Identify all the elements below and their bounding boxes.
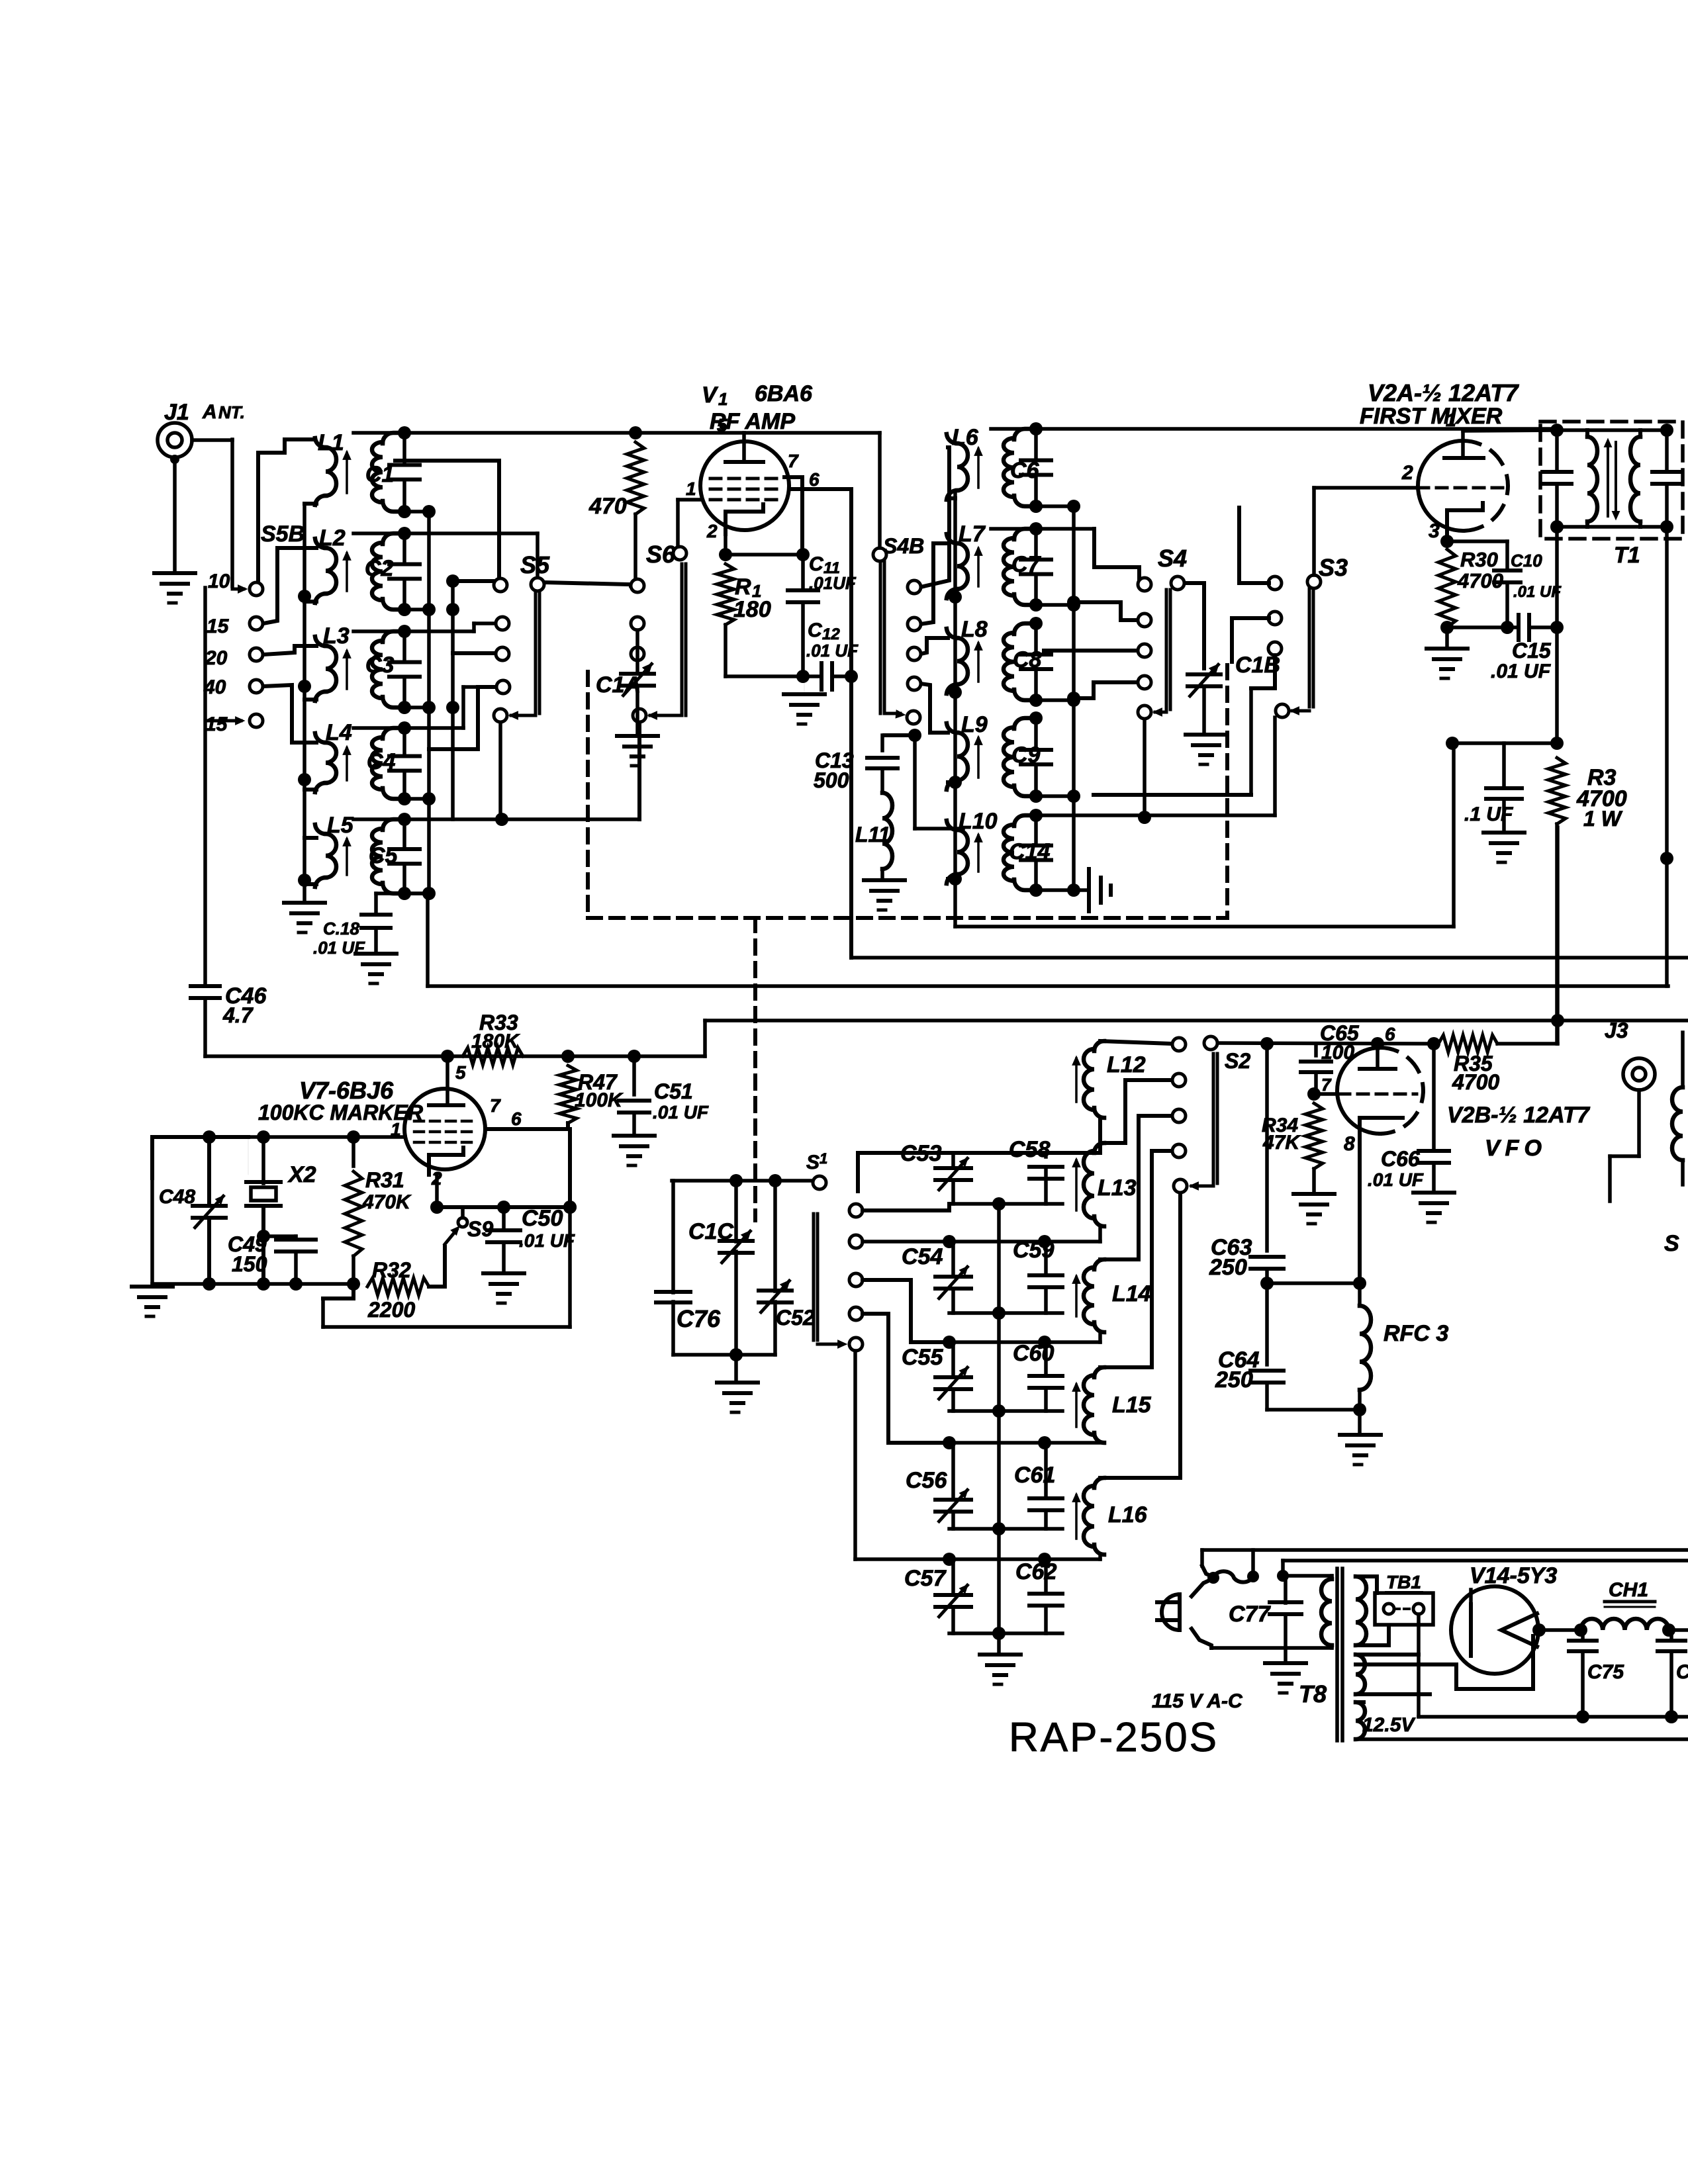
svg-text:C52: C52 (776, 1306, 815, 1330)
svg-text:V14-5Y3: V14-5Y3 (1470, 1563, 1557, 1588)
svg-text:L16: L16 (1108, 1502, 1148, 1527)
svg-text:VFO: VFO (1485, 1136, 1547, 1161)
svg-text:L4: L4 (326, 720, 352, 745)
svg-text:6: 6 (809, 469, 820, 490)
svg-text:S4B: S4B (883, 534, 924, 558)
svg-text:C: C (1676, 1661, 1688, 1683)
svg-text:500: 500 (814, 768, 849, 792)
svg-text:15: 15 (207, 615, 230, 637)
svg-text:C58: C58 (1009, 1137, 1050, 1162)
svg-text:L11: L11 (855, 823, 890, 846)
svg-text:A: A (202, 401, 217, 423)
svg-text:15: 15 (205, 713, 228, 735)
svg-text:L9: L9 (961, 712, 988, 737)
svg-text:7: 7 (490, 1095, 501, 1116)
svg-text:C15: C15 (1512, 639, 1552, 662)
svg-text:L5: L5 (327, 813, 354, 838)
svg-text:C77: C77 (1229, 1602, 1271, 1627)
svg-text:4700: 4700 (1452, 1070, 1499, 1094)
svg-text:.01UF: .01UF (809, 573, 857, 593)
svg-text:R: R (735, 574, 751, 600)
svg-text:7: 7 (788, 451, 799, 471)
svg-text:4.7: 4.7 (222, 1003, 254, 1027)
svg-text:L3: L3 (323, 623, 350, 649)
svg-text:T8: T8 (1299, 1680, 1327, 1707)
svg-text:T1: T1 (1614, 543, 1640, 568)
svg-text:.01 UF: .01 UF (1513, 583, 1562, 601)
svg-text:180: 180 (733, 597, 771, 622)
svg-text:C: C (809, 553, 824, 575)
svg-text:C1C: C1C (688, 1219, 733, 1244)
svg-text:C48: C48 (159, 1186, 195, 1208)
svg-text:L13: L13 (1098, 1175, 1137, 1201)
svg-text:100K: 100K (575, 1089, 624, 1111)
svg-text:C6: C6 (1010, 458, 1040, 483)
svg-text:L7: L7 (959, 522, 986, 547)
svg-text:.01 UF: .01 UF (1491, 660, 1551, 682)
svg-text:6BA6: 6BA6 (755, 381, 813, 406)
svg-text:X2: X2 (287, 1162, 316, 1187)
svg-text:.01 UF: .01 UF (519, 1230, 575, 1251)
svg-text:250: 250 (1209, 1255, 1247, 1280)
svg-text:115 V A-C: 115 V A-C (1152, 1690, 1243, 1712)
svg-text:S: S (1664, 1231, 1679, 1256)
svg-text:1: 1 (820, 1150, 827, 1167)
svg-text:C1A: C1A (596, 672, 641, 698)
svg-text:R30: R30 (1460, 548, 1498, 571)
svg-text:2: 2 (706, 521, 718, 541)
svg-text:V7-6BJ6: V7-6BJ6 (299, 1077, 394, 1104)
svg-text:RFC 3: RFC 3 (1383, 1321, 1448, 1346)
svg-text:C3: C3 (365, 653, 395, 678)
svg-text:470K: 470K (362, 1191, 412, 1213)
svg-text:C66: C66 (1381, 1147, 1420, 1171)
svg-text:.1 UF: .1 UF (1464, 803, 1513, 825)
svg-text:6: 6 (1385, 1024, 1395, 1044)
svg-text:C50: C50 (522, 1206, 563, 1231)
svg-text:6: 6 (511, 1109, 522, 1129)
svg-text:V2B-½ 12AT7: V2B-½ 12AT7 (1447, 1103, 1591, 1128)
svg-text:C75: C75 (1587, 1661, 1624, 1683)
svg-text:1 W: 1 W (1583, 807, 1623, 831)
svg-text:470: 470 (588, 494, 627, 519)
svg-text:V2A-½ 12AT7: V2A-½ 12AT7 (1368, 379, 1519, 406)
svg-text:L1: L1 (318, 430, 344, 455)
svg-text:L12: L12 (1107, 1052, 1146, 1077)
svg-text:S5: S5 (520, 551, 550, 578)
svg-text:2200: 2200 (367, 1298, 415, 1322)
svg-text:12.5V: 12.5V (1362, 1714, 1416, 1736)
svg-text:L6: L6 (952, 425, 979, 450)
svg-text:2: 2 (1401, 462, 1413, 484)
svg-text:R32: R32 (372, 1258, 411, 1282)
svg-text:5: 5 (717, 415, 727, 435)
svg-text:.01 UF: .01 UF (1368, 1169, 1424, 1190)
svg-text:C54: C54 (902, 1244, 943, 1269)
svg-text:L14: L14 (1112, 1281, 1151, 1306)
svg-text:C56: C56 (906, 1468, 947, 1493)
svg-text:S5B: S5B (261, 522, 305, 547)
svg-text:180K: 180K (471, 1030, 520, 1052)
svg-text:C8: C8 (1013, 647, 1042, 672)
svg-text:RAP-250S: RAP-250S (1009, 1715, 1219, 1760)
svg-text:S2: S2 (1225, 1049, 1250, 1073)
svg-text:S: S (806, 1152, 820, 1173)
svg-text:.01 UF: .01 UF (653, 1102, 709, 1122)
svg-text:C10: C10 (1511, 551, 1542, 570)
svg-text:S4: S4 (1158, 545, 1187, 572)
svg-text:C4: C4 (367, 749, 396, 774)
svg-text:FIRST MIXER: FIRST MIXER (1360, 404, 1503, 429)
svg-text:C5: C5 (369, 843, 399, 868)
svg-text:C76: C76 (677, 1305, 721, 1332)
svg-text:C14: C14 (1009, 839, 1050, 864)
svg-text:C61: C61 (1014, 1463, 1055, 1488)
svg-text:40: 40 (203, 676, 226, 698)
svg-text:L8: L8 (961, 617, 988, 642)
svg-text:.01 UF: .01 UF (313, 938, 365, 958)
svg-text:NT.: NT. (218, 402, 245, 422)
svg-text:C55: C55 (902, 1345, 943, 1370)
svg-text:5: 5 (455, 1062, 466, 1083)
svg-text:7: 7 (1321, 1075, 1332, 1095)
svg-text:L10: L10 (959, 809, 998, 834)
svg-text:C51: C51 (654, 1079, 693, 1103)
svg-text:C57: C57 (904, 1566, 947, 1591)
svg-text:C: C (808, 619, 823, 641)
svg-text:C2: C2 (365, 556, 394, 581)
svg-text:1: 1 (686, 478, 696, 499)
svg-text:C1: C1 (365, 462, 394, 487)
svg-text:C7: C7 (1011, 552, 1042, 577)
svg-text:20: 20 (205, 647, 228, 669)
svg-text:C62: C62 (1015, 1559, 1056, 1584)
svg-text:R31: R31 (365, 1168, 404, 1192)
svg-text:L15: L15 (1112, 1392, 1152, 1418)
svg-text:C9: C9 (1011, 743, 1041, 768)
svg-text:J1: J1 (164, 400, 189, 425)
svg-text:150: 150 (232, 1252, 267, 1276)
svg-text:10: 10 (208, 570, 230, 592)
svg-text:J3: J3 (1605, 1019, 1628, 1042)
svg-text:250: 250 (1215, 1367, 1253, 1392)
svg-text:.01 UF: .01 UF (806, 641, 859, 660)
svg-text:1: 1 (718, 389, 727, 409)
svg-text:S6: S6 (646, 541, 676, 568)
svg-text:1: 1 (1446, 410, 1456, 430)
svg-text:V: V (702, 383, 719, 408)
svg-text:S3: S3 (1319, 554, 1348, 581)
svg-text:TB1: TB1 (1386, 1572, 1421, 1592)
svg-text:C.18: C.18 (323, 919, 359, 938)
svg-text:L2: L2 (319, 525, 346, 551)
svg-text:CH1: CH1 (1609, 1579, 1648, 1601)
svg-text:3: 3 (1429, 520, 1440, 542)
svg-text:8: 8 (1344, 1133, 1355, 1155)
